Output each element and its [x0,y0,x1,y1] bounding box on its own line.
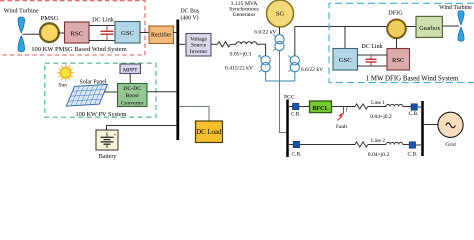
DC-DC boost converter box [118,84,148,107]
wire junction horizontal [266,80,295,82]
circuit breaker CB (line1 right) [411,104,417,110]
svg-text:DC Link: DC Link [92,16,115,23]
wire DFIG rotor down to RSC2 [396,38,398,48]
wire junction down to PCC [280,81,287,133]
inverter VSI box [186,34,211,57]
grid source circle [438,112,463,137]
PMSG generator circle [40,23,59,42]
wire DC bus to DC load [179,107,209,122]
wire T3 up to DFIG stator line [294,27,296,56]
generator SG circle [267,0,294,27]
MPPT box [120,64,141,74]
wire battery to DC bus [107,126,178,131]
svg-text:Gearbox: Gearbox [419,26,440,32]
svg-text:Generator: Generator [233,12,256,18]
circuit breaker CB (line2 right) [409,142,415,148]
converter GSC (DFIG) [333,49,358,71]
BFCL box [310,101,332,113]
red dashed boundary of PMSG system [0,1,145,55]
grid bus bar [421,101,424,156]
wire PCC to CB2 (line2) [289,144,355,146]
wire SG down to T1 [279,27,281,35]
svg-text:Wind Turbine: Wind Turbine [4,8,39,15]
PCC bus bar [286,100,289,158]
wind turbine 2 blades [458,11,464,42]
wire BFCL to resistor line1 [332,106,356,108]
wire PCC to CB1 [289,106,310,108]
svg-text:DC Load: DC Load [196,129,222,136]
svg-text:0.04+j0.2: 0.04+j0.2 [370,114,392,120]
svg-text:100 KW PMSG Based Wind System: 100 KW PMSG Based Wind System [31,46,126,53]
transformer T2 (0.415/22 kV) [259,55,270,72]
inductor line2 [386,142,403,144]
svg-text:SG: SG [276,11,285,18]
svg-text:RSC: RSC [71,30,84,37]
wire DC bus to VSI [179,43,186,45]
svg-text:DC-DC: DC-DC [123,86,141,92]
wire CB to grid bus (line2) [416,144,421,146]
capacitor DC link (PMSG) [101,26,114,41]
svg-text:0.05+j0.3: 0.05+j0.3 [230,52,252,58]
wire DC link bottom rail [89,40,115,42]
circuit breaker CB1 (PCC line1) [293,103,299,109]
resistor line1 [355,104,368,109]
wire resistor to inductor [231,43,237,45]
inductor 0.05 line [236,42,257,45]
wire DFIG stator line [295,26,388,28]
transformer T1 (6.6/22 kV SG) [273,34,284,51]
wire T2 bottom to junction [265,72,267,81]
svg-text:6.6/22 kV: 6.6/22 kV [301,67,323,73]
svg-text:Converter: Converter [121,100,144,106]
svg-text:Boost: Boost [126,93,140,99]
wire resistor to inductor line1 [368,106,386,108]
svg-text:C.B.: C.B. [408,152,418,158]
capacitor DC link (DFIG) [366,55,377,66]
svg-text:Grid: Grid [445,142,455,148]
wire DFIG to gearbox [406,26,416,28]
wind turbine 1 blades [18,17,25,52]
svg-text:C.B.: C.B. [292,151,302,157]
gearbox box [416,16,442,37]
svg-text:RSC: RSC [392,57,405,64]
wire inductor to CB (line2 right) [403,144,409,146]
wire DFIG DC link top rail [358,54,388,56]
wire grid bus to grid [424,124,438,126]
svg-text:Line 1: Line 1 [371,100,385,106]
converter RSC (PMSG) [65,22,90,43]
DC load box [196,121,223,143]
wire inductor to T2 drop [257,44,266,56]
svg-text:+: + [114,133,117,138]
circuit breaker CB2 (PCC line2) [293,141,299,147]
svg-text:PMSG: PMSG [41,15,59,22]
wire solar panel to boost converter [104,91,118,93]
blue dashed boundary of DFIG system [329,3,474,82]
svg-text:1 MW DFIG Based Wind System: 1 MW DFIG Based Wind System [366,76,459,83]
wire VSI to resistor [211,43,218,45]
wire T3 bottom to junction [294,72,296,81]
wire GSC to Rectifier [140,32,149,34]
svg-text:C.B.: C.B. [409,111,419,117]
green dashed boundary of PV system [45,63,156,117]
wire turbine1 shaft to PMSG [23,33,42,35]
svg-text:100 KW PV System: 100 KW PV System [75,111,126,118]
svg-text:0.415/22 kV: 0.415/22 kV [225,65,253,71]
svg-text:Sun: Sun [58,83,67,89]
DFIG generator circle [387,20,406,39]
wire CB to grid bus (line1) [418,106,421,108]
svg-text:0.04+j0.2: 0.04+j0.2 [368,152,390,158]
battery box [96,130,118,150]
svg-text:Source: Source [191,43,207,49]
wire Rectifier to DC bus [174,32,178,34]
svg-text:Line 2: Line 2 [371,138,385,144]
sun icon [57,64,74,81]
DC bus bar [176,20,179,141]
svg-text:GSC: GSC [121,30,134,37]
wire gearbox to turbine2 [442,25,459,27]
rectifier box [149,26,174,44]
wire stator line down to GSC2 [344,27,346,49]
wire boost converter to DC bus [147,91,177,93]
svg-text:DFIG: DFIG [388,9,403,16]
svg-text:DC Bus: DC Bus [181,9,200,15]
svg-text:Inverter: Inverter [190,49,208,55]
svg-text:DC Link: DC Link [361,44,382,50]
svg-text:Battery: Battery [99,154,117,160]
fault symbol [338,107,344,121]
wire inductor to CB (line1 right) [403,106,411,108]
wire DC link top rail [89,25,115,27]
inductor line1 [386,104,403,106]
svg-text:Wind Turbine: Wind Turbine [439,5,472,11]
svg-text:MPPT: MPPT [123,67,138,73]
svg-text:Fault: Fault [336,124,348,130]
converter RSC (DFIG) [387,49,410,71]
svg-text:BFCL: BFCL [312,106,328,112]
resistor line2 [355,142,368,147]
wire resistor to inductor line2 [368,144,386,146]
svg-text:C.B.: C.B. [291,111,301,117]
wire MPPT to boost converter [129,74,131,84]
svg-text:GSC: GSC [339,57,352,64]
transformer T3 (6.6/22 kV DFIG) [288,55,299,72]
resistor 0.05 line [218,42,231,47]
svg-text:PCC: PCC [284,95,295,101]
svg-text:Voltage: Voltage [190,36,207,42]
svg-text:(400 V): (400 V) [181,14,199,21]
solar panel [66,84,107,106]
converter GSC (PMSG) [115,22,140,44]
svg-text:Rectifier: Rectifier [151,31,171,38]
wire T1 down to junction [279,51,281,81]
wire PMSG to RSC [58,32,65,34]
wire DFIG DC link bottom rail [358,65,388,67]
